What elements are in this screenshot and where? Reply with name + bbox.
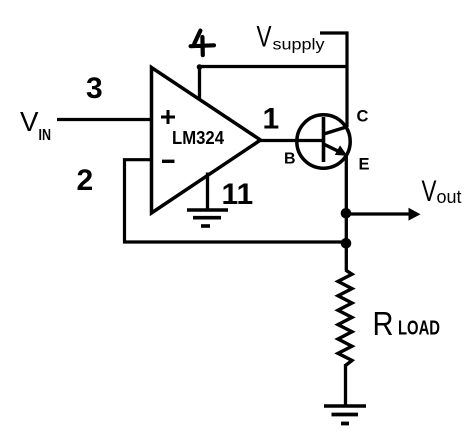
svg-text:1: 1: [263, 103, 280, 136]
wire VIN to pin3: [57, 118, 152, 121]
resistor RLOAD zigzag: [338, 270, 352, 366]
svg-text:supply: supply: [273, 37, 325, 54]
svg-text:LM324: LM324: [172, 128, 224, 148]
svg-text:V: V: [20, 106, 39, 137]
svg-text:E: E: [359, 156, 370, 174]
transistor Q1 circle: [297, 115, 350, 168]
transistor Q1 base bar: [322, 117, 326, 162]
svg-text:LOAD: LOAD: [398, 318, 440, 340]
op-amp minus input symbol: [162, 160, 175, 163]
op-amp plus input symbol: [161, 110, 175, 124]
wire Vout arrow: [346, 212, 410, 215]
wire resistor to ground: [344, 364, 347, 406]
transistor Q1 collector stroke: [324, 127, 348, 134]
pin label 4 (hand-drawn): [191, 31, 214, 56]
svg-text:C: C: [357, 108, 369, 126]
svg-text:V: V: [422, 175, 437, 208]
junction pin4 corner: [197, 64, 203, 70]
svg-text:R: R: [373, 305, 394, 342]
wire feedback from output node to pin2: [125, 160, 347, 242]
ground (op-amp pin 11): [187, 210, 228, 226]
wire pin11 to ground: [206, 173, 209, 211]
svg-text:3: 3: [86, 72, 103, 105]
svg-text:11: 11: [222, 178, 254, 211]
svg-text:2: 2: [77, 164, 94, 197]
node junction dot 1: [341, 208, 352, 219]
ground (load): [324, 406, 366, 424]
wire op-amp output to transistor base: [259, 139, 324, 142]
wire emitter down to node: [345, 156, 348, 271]
op-amp U1 triangle: [152, 68, 261, 214]
wire pin4 to supply rail: [200, 67, 348, 100]
svg-text:V: V: [257, 21, 272, 54]
transistor Q1 emitter stroke with arrow: [324, 144, 341, 152]
svg-text:B: B: [284, 150, 296, 167]
svg-text:IN: IN: [39, 127, 52, 144]
node junction dot 2: [341, 238, 352, 249]
svg-text:out: out: [437, 187, 462, 207]
wire Vsupply corner: [320, 33, 347, 127]
